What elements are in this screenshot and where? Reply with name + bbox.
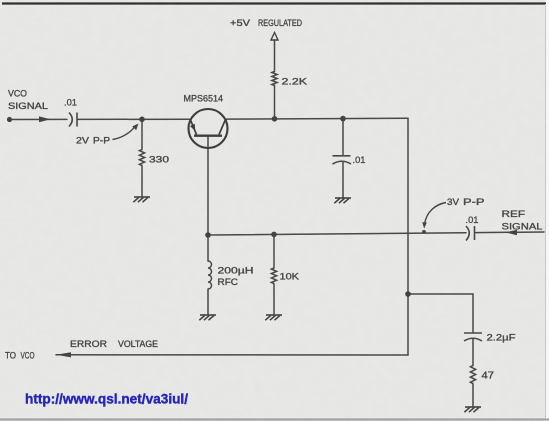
top border line bbox=[2, 2, 546, 4]
resistor R1 2.2K bbox=[272, 72, 277, 86]
wire: coupling cap to transistor emitter bbox=[78, 118, 191, 120]
ground G2 (bypass cap) bbox=[334, 198, 351, 203]
arrow: error voltage (points left) bbox=[56, 352, 71, 357]
wire: bypass cap branch bbox=[342, 119, 344, 155]
ground G4 (10K) bbox=[265, 315, 282, 320]
node dot: bypass cap bbox=[340, 116, 346, 122]
ground G3 (RFC) bbox=[199, 315, 216, 320]
capacitor C1 .01 input bbox=[69, 113, 77, 127]
arrow: +5V open arrowhead bbox=[271, 33, 278, 41]
arrow: VCO input bbox=[39, 116, 51, 122]
capacitor C4 2.2uF bbox=[464, 333, 482, 341]
wire: 2.2K resistor branch bbox=[274, 86, 276, 119]
wire: 10K branch bbox=[273, 234, 275, 268]
node dot: input terminal bbox=[7, 117, 12, 122]
wire: ref cap to right edge bbox=[476, 231, 545, 234]
bottom border line bbox=[0, 418, 549, 420]
wire: 47 to ground bbox=[472, 384, 474, 408]
resistor R2 330 bbox=[139, 150, 144, 166]
resistor R4 47 bbox=[470, 366, 475, 384]
ground G5 (47) bbox=[464, 407, 481, 412]
wire: transistor base lead bbox=[207, 136, 209, 235]
capacitor C3 .01 ref bbox=[466, 226, 475, 241]
wire: VCO input to coupling cap bbox=[9, 118, 67, 120]
leader: 3V P-P pointer bbox=[425, 203, 447, 225]
node dot: collector / 2.2K bbox=[272, 116, 278, 122]
ground G1 (330) bbox=[133, 197, 150, 202]
capacitor C2 .01 bypass bbox=[333, 156, 352, 164]
node dot: 2.2uF branch bbox=[405, 291, 411, 297]
wire: branch to 2.2uF bbox=[408, 294, 473, 332]
right border line bbox=[545, 4, 547, 419]
wire: 2.2uF to 47 bbox=[472, 339, 474, 366]
transistor Q1 MPS6514 bbox=[189, 109, 228, 148]
node dot: emitter junction bbox=[139, 117, 145, 123]
wire: error voltage line bbox=[56, 354, 408, 356]
wire: RFC branch bbox=[207, 235, 209, 261]
inductor L1 200uH RFC bbox=[208, 261, 212, 289]
resistor R3 10K bbox=[271, 268, 276, 284]
wire: transistor collector to corner bbox=[226, 117, 408, 120]
node dot: 3V P-P pointer bbox=[422, 230, 426, 234]
wire: 330 resistor branch bbox=[141, 119, 143, 149]
node dot: base row left bbox=[205, 232, 211, 238]
arrow: REF input (points left) bbox=[506, 230, 518, 236]
wire: base row left (to ref cap) bbox=[208, 233, 466, 235]
wire: right vertical bus bbox=[407, 118, 409, 355]
node dot: 10K junction bbox=[271, 232, 277, 238]
leader: 2V P-P pointer bbox=[113, 127, 136, 140]
